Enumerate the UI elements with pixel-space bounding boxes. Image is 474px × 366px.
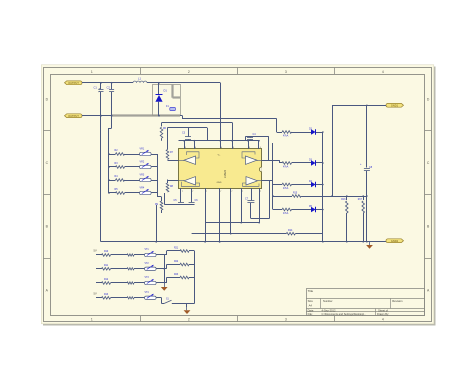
- svg-text:7: 7: [182, 191, 183, 193]
- svg-text:5V: 5V: [94, 291, 97, 295]
- svg-text:C1: C1: [94, 86, 98, 90]
- svg-text:1: 1: [91, 70, 93, 74]
- svg-text:C2: C2: [107, 86, 111, 90]
- svg-text:Size: Size: [308, 299, 314, 303]
- svg-text:Date:: Date:: [308, 308, 315, 312]
- svg-text:GND2: GND2: [391, 239, 399, 243]
- svg-text:C:\Documents and Settings\Desk: C:\Documents and Settings\Desktop\..: [322, 312, 366, 316]
- svg-text:R23: R23: [174, 274, 179, 276]
- svg-text:R10: R10: [104, 251, 109, 253]
- svg-text:R15: R15: [293, 192, 298, 194]
- svg-text:7: 7: [231, 191, 232, 193]
- svg-text:R13: R13: [104, 294, 109, 296]
- svg-text:VT2: VT2: [145, 263, 150, 265]
- svg-text:7: 7: [220, 191, 221, 193]
- svg-text:7: 7: [206, 191, 207, 193]
- svg-text:47kA: 47kA: [283, 135, 289, 138]
- svg-text:7: 7: [192, 191, 193, 193]
- svg-text:4: 4: [260, 147, 261, 149]
- svg-text:4: 4: [195, 147, 196, 149]
- svg-text:4-Sep-2012: 4-Sep-2012: [322, 308, 337, 312]
- svg-text:Revision: Revision: [392, 299, 403, 303]
- svg-text:GND: GND: [217, 182, 222, 184]
- svg-text:1: 1: [91, 318, 93, 322]
- svg-text:VR4: VR4: [140, 186, 145, 189]
- svg-text:VR2: VR2: [140, 160, 145, 163]
- svg-text:VR3: VR3: [140, 173, 145, 176]
- svg-text:R22: R22: [174, 261, 179, 263]
- svg-text:4: 4: [221, 147, 222, 149]
- svg-text:A4: A4: [309, 304, 313, 308]
- svg-text:4: 4: [382, 70, 384, 74]
- svg-text:R21: R21: [174, 247, 179, 249]
- svg-text:2: 2: [188, 318, 190, 322]
- svg-text:2: 2: [188, 70, 190, 74]
- svg-text:4: 4: [185, 147, 186, 149]
- svg-text:VR1: VR1: [140, 147, 145, 150]
- svg-text:GND1: GND1: [391, 104, 399, 108]
- svg-text:47kA: 47kA: [283, 187, 289, 190]
- svg-text:47kA: 47kA: [283, 212, 289, 215]
- svg-text:Sheet of: Sheet of: [378, 308, 388, 312]
- svg-text:7: 7: [242, 191, 243, 193]
- svg-text:Title: Title: [308, 289, 314, 293]
- svg-text:OUTPUT: OUTPUT: [68, 114, 79, 118]
- svg-text:5V: 5V: [94, 249, 97, 253]
- svg-text:3: 3: [285, 318, 287, 322]
- svg-text:R12: R12: [104, 279, 109, 281]
- svg-text:VT1: VT1: [145, 249, 150, 251]
- svg-text:3: 3: [285, 70, 287, 74]
- svg-text:R17: R17: [358, 199, 363, 201]
- svg-text:R14: R14: [288, 229, 293, 232]
- svg-text:4: 4: [249, 147, 250, 149]
- svg-text:Drawn By:: Drawn By:: [377, 312, 389, 316]
- svg-text:File:: File:: [308, 312, 313, 316]
- svg-text:VT4: VT4: [145, 292, 150, 294]
- svg-text:VT3: VT3: [145, 277, 150, 279]
- svg-text:4: 4: [382, 318, 384, 322]
- svg-text:D1: D1: [164, 89, 168, 93]
- svg-text:LM324: LM324: [223, 169, 227, 177]
- svg-text:Number: Number: [323, 299, 333, 303]
- svg-text:OUTPUT: OUTPUT: [68, 81, 79, 85]
- svg-text:47kA: 47kA: [283, 166, 289, 169]
- svg-text:R16: R16: [341, 199, 346, 201]
- svg-text:4: 4: [233, 147, 234, 149]
- svg-text:7: 7: [260, 191, 261, 193]
